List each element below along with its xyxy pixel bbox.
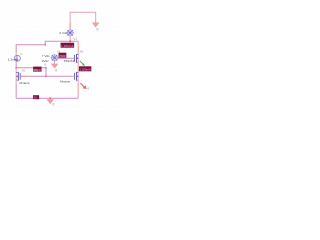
M3 drain pin from rail <box>77 41 79 54</box>
node junction rail step <box>44 44 45 45</box>
svg-text:Mname: Mname <box>60 80 70 84</box>
svg-text:M3: M3 <box>80 51 84 54</box>
bias box D (cascode current) <box>79 66 91 71</box>
svg-text:0 Vdc: 0 Vdc <box>59 31 67 35</box>
svg-text:0: 0 <box>55 68 57 72</box>
ground GND1 symbol top right <box>92 23 99 28</box>
svg-text:1.200mA: 1.200mA <box>79 68 90 72</box>
M1 gate pin <box>20 75 26 77</box>
wire bottom rail <box>16 97 78 99</box>
wire gate rail <box>21 75 72 77</box>
M3 gate pin <box>72 57 75 59</box>
voltage source V2 <box>51 54 59 61</box>
V1 pins <box>69 23 71 42</box>
svg-text:7 Vdc: 7 Vdc <box>42 54 50 58</box>
wire right column lower <box>77 88 79 98</box>
current source I1 <box>14 55 20 61</box>
M2 gate pin <box>72 75 75 77</box>
wire left column lower <box>15 84 17 98</box>
svg-text:PMOS1: PMOS1 <box>64 59 75 63</box>
ground GND2 bottom <box>49 98 51 99</box>
svg-text:7.000V: 7.000V <box>59 54 66 58</box>
node junction M1 drain <box>15 67 16 69</box>
wire top rail lower (y44.5) <box>16 44 45 46</box>
node junction diode corner <box>45 67 46 68</box>
svg-text:Mname: Mname <box>20 81 30 85</box>
bias box A (top rail current) <box>61 43 75 48</box>
voltage source V1 <box>66 29 74 36</box>
svg-text:B: B <box>45 63 47 67</box>
svg-text:1.2mA: 1.2mA <box>8 57 18 61</box>
wire M3 source to M2 drain <box>77 62 79 72</box>
svg-text:1.200mA: 1.200mA <box>61 44 74 48</box>
svg-text:0Vdc: 0Vdc <box>42 59 50 63</box>
rotated ground / marker arrow bottom right <box>80 83 84 87</box>
current source I1 pins <box>15 52 17 64</box>
transistor M1 (NMOS mirrored, left) <box>15 68 17 72</box>
wire left column upper <box>15 44 17 52</box>
wire diode connect horizontal <box>16 67 46 69</box>
node junction gate rail <box>45 76 47 78</box>
wire top loop V1 to ground <box>70 12 96 29</box>
svg-text:989.9mV: 989.9mV <box>34 68 42 72</box>
svg-text:M1: M1 <box>22 69 26 72</box>
bias box C (gate cascode voltage) <box>59 53 67 58</box>
wire diode connect vertical <box>45 68 47 77</box>
node junction V1-rail <box>69 41 71 43</box>
wire M3 gate <box>58 57 72 59</box>
svg-text:V1: V1 <box>73 37 77 41</box>
svg-text:0: 0 <box>53 103 55 107</box>
wire left column to M1 drain <box>15 64 17 68</box>
current marker green arrow <box>80 61 83 64</box>
bias box B (gate net voltage) <box>33 67 41 72</box>
V2 bottom pin <box>54 61 56 64</box>
svg-text:0: 0 <box>97 28 99 32</box>
transistor M2 (mirror out, right lower) <box>75 72 79 81</box>
bias box E (bottom rail voltage) <box>33 95 39 99</box>
M2 source pin <box>77 80 79 88</box>
wire top rail upper (y41) <box>45 41 78 45</box>
svg-text:0V: 0V <box>33 96 37 100</box>
transistor M3 (cascode, right upper) <box>75 54 79 63</box>
node junction ground bottom <box>49 98 51 100</box>
M1 source pin <box>15 80 17 84</box>
ground GND3 under V2 <box>51 64 58 68</box>
